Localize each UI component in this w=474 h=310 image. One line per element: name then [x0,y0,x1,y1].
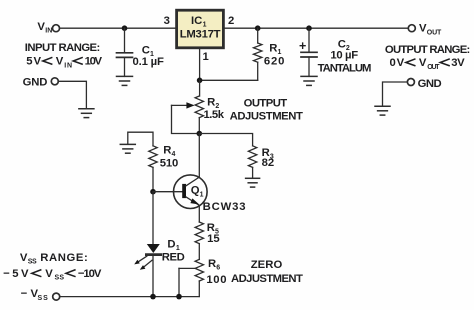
wire junction to R3 [199,134,252,146]
label 0V < VOUT < 3V [390,57,466,71]
node C1 top junction [122,25,128,31]
svg-text:1.5k: 1.5k [204,109,225,121]
terminal VIN [53,25,60,32]
svg-text:V: V [56,56,64,68]
label D1 [167,239,180,253]
wire bottom rail [60,296,199,298]
label IC1 [191,15,207,29]
svg-text:RANGE:: RANGE: [40,252,88,264]
wire GND terminal to ground [59,81,87,109]
svg-text:V: V [45,268,53,280]
svg-text:R: R [207,97,215,109]
label VSS RANGE [20,252,88,266]
svg-text:R: R [208,258,216,270]
resistor R4 [149,146,157,192]
resistor R2 potentiometer 1.5k [195,80,203,133]
label VIN [37,21,52,35]
svg-text:ADJUSTMENT: ADJUSTMENT [231,273,303,285]
node pin1/R2 top junction [197,78,203,84]
svg-text:0.1 µF: 0.1 µF [133,56,164,68]
ground (below R3) [246,178,260,187]
svg-text:LM317T: LM317T [180,28,221,40]
svg-text:OUT: OUT [427,64,440,71]
svg-text:SS: SS [55,275,65,282]
svg-text:+: + [299,39,306,53]
svg-text:5V: 5V [26,56,41,68]
node C2 top junction [306,25,312,31]
svg-text:SS: SS [28,259,37,266]
svg-text:V: V [419,57,427,69]
terminal GND right [407,79,414,86]
resistor R5 [195,222,203,259]
svg-text:10 µF: 10 µF [330,50,358,62]
label C1 [142,44,154,58]
svg-text:IN: IN [45,27,52,34]
svg-text:D: D [167,239,175,251]
svg-text:3V: 3V [451,57,465,69]
label R1 [269,42,281,56]
svg-text:R: R [163,144,171,156]
svg-text:−5V: −5V [3,268,29,280]
svg-text:6: 6 [216,265,220,272]
svg-text:OUT: OUT [427,30,442,37]
label 5V < VIN < 10V [26,56,102,70]
svg-text:100: 100 [206,274,226,286]
label OUTPUT ADJUSTMENT [230,97,303,122]
ground (left GND) [79,109,94,118]
svg-text:C: C [142,44,150,56]
svg-text:82: 82 [262,157,275,169]
svg-text:ZERO: ZERO [251,259,283,271]
svg-text:GND: GND [23,77,48,89]
node R2 bottom junction [197,131,203,137]
ground (below C1) [117,76,133,85]
label VOUT [419,23,442,37]
svg-text:V: V [419,23,427,35]
label -VSS [21,288,49,302]
resistor R1 [254,28,262,80]
terminal VSS [53,293,60,300]
svg-text:15: 15 [207,233,220,245]
svg-text:Q: Q [191,185,200,197]
resistor R6 potentiometer 100 [195,259,203,296]
svg-text:GND: GND [418,78,442,90]
svg-text:BCW33: BCW33 [203,201,246,213]
op-amp U1 : IC1 LM317T regulator box [177,10,224,48]
svg-text:OUTPUT RANGE:: OUTPUT RANGE: [385,44,470,56]
wire R1 bottom to pin1 node [200,79,258,81]
ground (right GND) [375,106,390,115]
label ZERO ADJUSTMENT [231,259,303,285]
svg-text:510: 510 [160,158,179,170]
svg-text:0V: 0V [390,57,405,69]
transistor Q1 BCW33 [174,175,208,209]
label -5V < VSS < -10V [3,268,102,282]
svg-text:IC: IC [191,15,202,27]
wire emitter down [198,205,200,222]
node Q1 base junction [150,189,156,195]
svg-text:1: 1 [203,51,209,63]
node R1 top junction [255,25,261,31]
label R4 [163,144,175,158]
svg-text:−V: −V [21,288,39,300]
wire IC1 pin2 to VOUT [225,27,409,29]
wire base [153,191,182,193]
capacitor C1 [117,53,133,77]
svg-text:−10V: −10V [78,268,102,280]
node D1 bottom junction [150,294,156,300]
svg-text:OUTPUT: OUTPUT [244,97,288,109]
svg-text:2: 2 [228,15,234,27]
svg-text:1: 1 [200,191,204,198]
capacitor C2 [301,28,317,76]
wire GND right to ground [383,82,408,106]
svg-text:R: R [269,42,277,54]
label R6 [208,258,220,272]
svg-text:3: 3 [164,15,170,27]
svg-text:SS: SS [38,295,49,302]
wire R6 wiper [179,268,195,296]
label R2 [207,97,219,111]
wire R2 wiper [172,102,200,133]
label C2 [338,39,350,53]
svg-text:INPUT RANGE:: INPUT RANGE: [25,42,101,54]
label R5 [207,222,219,236]
ground (below C2) [301,76,317,85]
svg-text:V: V [20,252,28,264]
terminal VOUT [408,25,415,32]
label R3 [262,147,274,161]
node R6 wiper junction [176,294,182,300]
terminal GND left [51,78,58,85]
wire C1 top [124,28,126,53]
svg-text:RED: RED [162,251,185,263]
wire VIN to IC1 pin3 [60,27,175,29]
svg-text:ADJUSTMENT: ADJUSTMENT [230,111,303,123]
wire IC1 pin1 down [199,49,201,80]
wire R4 top to ground [128,132,153,146]
svg-text:620: 620 [264,55,285,67]
label Q1 [191,185,204,199]
ground (R4 top) [120,144,135,153]
svg-text:V: V [37,21,45,33]
LED D1 RED [146,192,160,297]
svg-text:10V: 10V [85,56,103,68]
resistor R3 [248,146,256,179]
svg-text:IN: IN [64,62,72,69]
svg-text:1: 1 [203,21,207,28]
svg-text:TANTALUM: TANTALUM [318,62,372,74]
wire collector up to junction [198,134,200,178]
D1 light arrows [134,256,152,270]
